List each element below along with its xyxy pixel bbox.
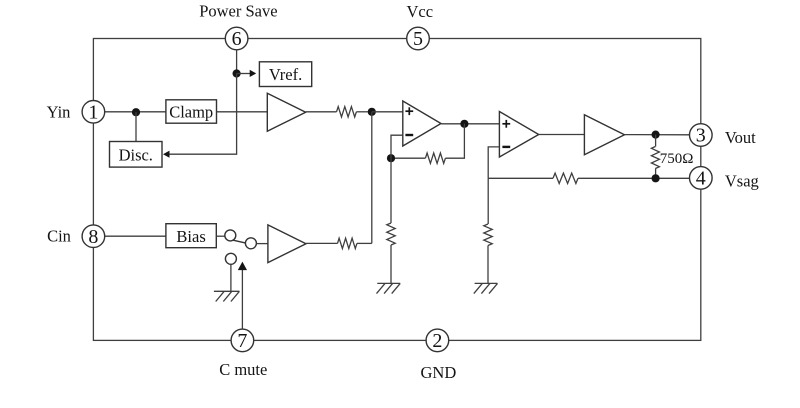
wire Vout node to 750ohm resistor [655, 135, 657, 147]
wire U2 output to buffer A3 [539, 134, 585, 136]
wire junction to Vref. with arrow [237, 73, 251, 75]
U2 - symbol [502, 146, 510, 148]
svg-text:7: 7 [237, 330, 247, 352]
wire R2 to summing node riser [357, 242, 372, 244]
switch blade [233, 240, 245, 243]
wire summing node to op-amp U1 + input [372, 111, 403, 113]
pin 7 (C mute) [231, 329, 254, 352]
pin 2 (GND) [426, 329, 449, 352]
wire sag node to R5 [488, 177, 553, 179]
wire A3 output to pin 3 [625, 134, 690, 136]
U1 - symbol [405, 134, 413, 136]
feedback resistor R3 [425, 153, 445, 163]
wire A1 output to resistor R1 [306, 111, 337, 113]
wire node to U1 - input [391, 135, 403, 158]
arrow to switch actuator [238, 262, 247, 271]
svg-text:Vout: Vout [725, 128, 756, 147]
svg-text:Vsag: Vsag [725, 171, 759, 190]
svg-text:Vcc: Vcc [407, 2, 434, 21]
svg-text:3: 3 [696, 125, 706, 147]
junction dot Vout node [652, 131, 660, 139]
wire pin7 up toward switch [241, 270, 243, 330]
svg-text:GND: GND [421, 363, 457, 382]
wire A2 output to resistor R2 [306, 242, 338, 244]
wire pin6 down to Vref junction [236, 50, 238, 74]
svg-text:Disc.: Disc. [119, 146, 153, 165]
svg-text:Power Save: Power Save [199, 1, 277, 20]
svg-text:Yin: Yin [47, 103, 71, 122]
block Clamp [166, 100, 217, 123]
pin 3 (Vout) [690, 124, 713, 147]
svg-text:C mute: C mute [219, 360, 267, 379]
svg-text:2: 2 [432, 330, 442, 352]
op-amp U1 [403, 101, 441, 146]
wire Bias to switch pole [216, 235, 224, 237]
svg-text:4: 4 [696, 168, 706, 190]
svg-text:1: 1 [88, 101, 98, 123]
switch throw contact (to amp) [245, 238, 256, 249]
svg-text:6: 6 [232, 28, 242, 50]
pin 5 (Vcc) [407, 27, 430, 50]
svg-text:Clamp: Clamp [169, 103, 213, 122]
block Disc. [110, 142, 163, 168]
block Bias [166, 224, 216, 248]
wire R5 to pin 4 [578, 177, 690, 179]
svg-text:Vref.: Vref. [269, 65, 302, 84]
amplifier A3 (output buffer) [584, 115, 624, 155]
U2 + symbol [502, 120, 510, 128]
wire R3 to U1 - node [391, 157, 425, 159]
resistor R6 (to ground) [484, 224, 492, 246]
wire sag node down to R6 [487, 178, 489, 224]
wire U2 - input to sag node [488, 147, 499, 178]
resistor R5 (Vsag feedback) [553, 173, 578, 183]
svg-text:750Ω: 750Ω [660, 151, 694, 167]
junction dot U1 output node [460, 120, 468, 128]
pin 1 (Yin) [82, 101, 105, 124]
wire summing node down to C path [371, 112, 373, 244]
wire pin8 to Bias [105, 235, 166, 237]
wire R1 to summing node [356, 111, 371, 113]
amplifier A1 (Y buffer) [267, 93, 305, 131]
ground under R6 [474, 283, 498, 293]
wire R6 to ground [487, 246, 489, 284]
junction dot U1 inverting node [387, 154, 395, 162]
resistor R7 750 ohm [651, 147, 659, 169]
resistor R2 [338, 238, 357, 248]
svg-text:Cin: Cin [47, 227, 71, 246]
wire switch to amp A2 [256, 243, 268, 245]
junction dot Vsag node [652, 174, 660, 182]
amplifier A2 (C buffer) [268, 225, 306, 263]
resistor R1 [337, 107, 357, 117]
wire node down to R4 [390, 158, 392, 223]
U1 + symbol [405, 107, 413, 115]
ground under R4 [377, 283, 401, 293]
junction dot node after pin 1 [132, 108, 140, 116]
IC boundary rectangle (power/ground rails) [93, 39, 700, 341]
pin 8 (Cin) [82, 225, 105, 248]
wire 750ohm to Vsag node [655, 169, 657, 179]
wire junction to Disc. [135, 112, 137, 141]
op-amp U2 [499, 112, 538, 158]
junction dot summing node [368, 108, 376, 116]
wire R4 to ground [390, 245, 392, 283]
wire Clamp to amp A1 [217, 111, 268, 113]
switch throw contact (to ground) [225, 253, 236, 264]
block Vref. [259, 62, 311, 87]
svg-text:5: 5 [413, 28, 423, 50]
wire U1 output down to feedback resistor [445, 124, 464, 158]
wire U1 output [441, 123, 499, 125]
wire power-save node down and left to Disc. with arrow [169, 74, 236, 155]
ground under mute switch [214, 291, 240, 301]
pin 6 (Power Save) [225, 27, 248, 50]
wire pin1 to Clamp [105, 111, 166, 113]
svg-text:Bias: Bias [176, 227, 205, 246]
svg-text:8: 8 [88, 226, 98, 248]
switch pole contact [225, 230, 236, 241]
wire mute contact to ground [230, 265, 232, 292]
resistor R4 (to ground) [387, 223, 395, 245]
junction dot power-save node [233, 69, 241, 77]
pin 4 (Vsag) [690, 167, 713, 190]
